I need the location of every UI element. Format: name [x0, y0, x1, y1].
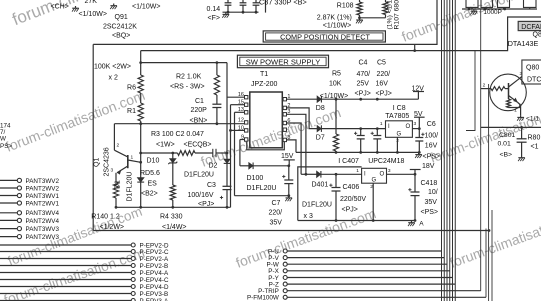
svg-text:D100: D100 — [247, 175, 264, 182]
svg-text:25V: 25V — [357, 81, 370, 88]
svg-text:PANT2WV4: PANT2WV4 — [26, 218, 60, 225]
wire vertical — [485, 229, 487, 298]
wire main box top — [93, 0, 437, 44]
svg-text:P-EPV4-A: P-EPV4-A — [140, 270, 169, 277]
svg-text:PANT3WV1: PANT3WV1 — [26, 193, 60, 200]
wire 18V input rail — [301, 173, 316, 175]
wire — [265, 0, 267, 13]
wire vertical — [466, 51, 475, 131]
T1 pin 10 — [245, 129, 248, 132]
svg-text:15V: 15V — [281, 153, 294, 160]
svg-text:C6: C6 — [427, 121, 436, 128]
connector P-EPV3-A — [0, 300, 131, 301]
svg-text:C406: C406 — [343, 184, 360, 191]
svg-text:<1/1: <1/1 — [526, 116, 539, 123]
svg-text:PANT2WV1: PANT2WV1 — [26, 200, 60, 207]
svg-text:R80: R80 — [528, 135, 541, 142]
svg-text:1: 1 — [131, 155, 134, 161]
svg-text:C801: C801 — [499, 132, 515, 139]
capacitor C1 220P — [216, 95, 218, 104]
svg-text:R108: R108 — [337, 2, 354, 9]
connector P-EPV4-C — [0, 279, 131, 281]
COMP POSITION DETECT block — [263, 31, 385, 42]
connector P-EPV2-C — [0, 251, 131, 253]
svg-text:Q80: Q80 — [526, 65, 539, 72]
svg-text:D7: D7 — [316, 135, 325, 142]
wire pin15 — [231, 104, 245, 106]
svg-text:(1%) <1/10W: (1%) <1/10W — [387, 0, 394, 30]
svg-text:R107 680: R107 680 — [394, 0, 401, 30]
ground — [359, 18, 361, 20]
svg-text:<F>: <F> — [208, 15, 220, 22]
wire pin2 to D7 — [287, 108, 318, 129]
svg-text:P-EPV3-B: P-EPV3-B — [140, 291, 169, 298]
connector PANT3WV1 — [0, 195, 17, 197]
svg-text:P-EPV2-C: P-EPV2-C — [140, 249, 169, 256]
resistor R6 — [140, 51, 142, 75]
svg-text:JPZ-200: JPZ-200 — [251, 81, 278, 88]
resistor R1 — [140, 93, 142, 103]
svg-text:<PS>: <PS> — [421, 209, 439, 216]
ground A — [411, 221, 413, 223]
svg-text:27K: 27K — [85, 0, 98, 5]
svg-text:G: G — [372, 178, 377, 184]
svg-text:3: 3 — [111, 168, 114, 174]
DCFAN label box — [518, 21, 541, 30]
wire pin6 jog — [287, 123, 302, 174]
wire bottom common W1 — [116, 206, 231, 208]
regulator IC407 UPC24M18 — [362, 168, 387, 183]
svg-text:2SC4236: 2SC4236 — [104, 147, 111, 176]
resistor R5 10K — [335, 99, 337, 134]
node 100K wire — [141, 62, 227, 64]
svg-text:3: 3 — [414, 121, 417, 127]
wire box left border — [92, 44, 94, 230]
zener D10 RD5.6ES — [171, 152, 174, 155]
svg-text:C1: C1 — [195, 98, 204, 105]
wire right lower — [481, 126, 541, 128]
connector PANT3WV3 — [0, 228, 17, 230]
bus wires — [441, 0, 443, 301]
connector PANT3WV4 — [0, 212, 17, 214]
svg-text:2SC2412K: 2SC2412K — [103, 23, 137, 30]
svg-text:<B>: <B> — [500, 152, 513, 159]
wire 12V rail — [287, 98, 318, 100]
svg-text:R1: R1 — [127, 108, 136, 115]
svg-text:TA7805: TA7805 — [385, 113, 409, 120]
connector P-EPV4-D — [0, 286, 131, 288]
svg-text:O: O — [380, 172, 385, 178]
capacitor C4 470/25V — [360, 129, 362, 136]
resistor R107 — [385, 0, 387, 2]
ground — [113, 4, 115, 6]
diode D100 D1FL20U — [240, 165, 249, 167]
svg-text:D1: D1 — [114, 180, 121, 189]
connector PANT3WV2 — [0, 179, 17, 181]
capacitor C801 0.01 — [521, 127, 523, 138]
svg-text:100K <2W>: 100K <2W> — [94, 64, 131, 71]
svg-text:35V: 35V — [270, 220, 283, 227]
svg-text:PANT3WV4: PANT3WV4 — [26, 210, 60, 217]
svg-text:D1FL20U: D1FL20U — [302, 202, 332, 209]
wire output — [387, 173, 416, 175]
svg-text:7: 7 — [287, 125, 290, 131]
wire bottom rail — [298, 220, 415, 222]
svg-text:220/50V: 220/50V — [340, 196, 366, 203]
svg-text:x 3: x 3 — [304, 213, 313, 220]
svg-text:O: O — [406, 124, 411, 130]
capacitor C5 220/16V — [376, 129, 378, 136]
wire — [360, 17, 386, 19]
svg-text:0.14: 0.14 — [207, 6, 221, 13]
svg-text:RD5.6: RD5.6 — [140, 170, 160, 177]
svg-text:C3: C3 — [207, 182, 216, 189]
T1 pin 13 — [245, 111, 248, 114]
svg-text:x 2: x 2 — [109, 75, 118, 82]
svg-text:I C407: I C407 — [338, 158, 359, 165]
capacitor — [227, 0, 229, 3]
wire vertical — [491, 210, 493, 301]
svg-text:100/: 100/ — [425, 132, 439, 139]
svg-text:<PJ>: <PJ> — [198, 201, 214, 208]
svg-text:DTC143: DTC143 — [527, 76, 541, 83]
svg-text:0.01: 0.01 — [498, 140, 511, 147]
svg-text:W: W — [0, 136, 6, 143]
svg-text:D10: D10 — [147, 158, 160, 165]
svg-text:<1W>: <1W> — [156, 141, 175, 148]
svg-text:2: 2 — [483, 83, 486, 89]
T1 pin 1 — [283, 98, 286, 101]
T1 pin 8 — [283, 138, 286, 141]
wire pin16 — [227, 96, 245, 98]
svg-text:<1/2W>: <1/2W> — [100, 224, 125, 231]
transistor Q1 2SC4236 — [114, 150, 127, 157]
wire pin8 to rail — [287, 140, 297, 153]
SW POWER SUPPLY label box — [237, 55, 328, 67]
svg-text:2: 2 — [117, 143, 120, 149]
ground — [288, 196, 290, 198]
svg-text:ES: ES — [148, 181, 158, 188]
wire — [412, 128, 419, 130]
svg-text:220P: 220P — [191, 107, 208, 114]
svg-text:COMP POSITION DETECT: COMP POSITION DETECT — [280, 32, 370, 41]
wire pin9 — [240, 139, 245, 141]
svg-text:16V: 16V — [376, 81, 389, 88]
diode D2 D1FL20U — [226, 63, 228, 159]
wire pins 9-8 loop — [247, 142, 284, 150]
svg-text:D1FL20U: D1FL20U — [184, 172, 214, 179]
svg-text:UPC24M18: UPC24M18 — [368, 158, 404, 165]
capacitor C7 220/35V — [288, 166, 290, 180]
svg-text:<PJ>: <PJ> — [342, 207, 358, 214]
transistor Q801 DTC digital — [490, 74, 527, 111]
diode D401 D1FL20U — [317, 171, 321, 178]
wire vertical — [480, 9, 482, 291]
svg-text:PANT2WV2: PANT2WV2 — [26, 185, 60, 192]
svg-text:<BQ>: <BQ> — [112, 32, 130, 39]
svg-text:18V: 18V — [422, 163, 435, 170]
svg-text:<RS - 3W>: <RS - 3W> — [170, 84, 205, 91]
svg-text:470/: 470/ — [357, 71, 371, 78]
connector P-EPV4-A — [0, 272, 131, 274]
wire pin13 — [235, 111, 245, 113]
connector P-EPV2-A — [0, 258, 131, 260]
capacitor C3 100/16V — [223, 185, 232, 187]
capacitor row top right — [462, 8, 537, 10]
wire — [223, 11, 259, 13]
svg-text:R6: R6 — [127, 85, 136, 92]
svg-text:10/: 10/ — [428, 189, 438, 196]
svg-text:P-EPV4-D: P-EPV4-D — [140, 284, 169, 291]
svg-text:35V: 35V — [425, 199, 438, 206]
svg-text:<CH>: <CH> — [51, 4, 69, 11]
connector PANT2WV1 — [0, 202, 17, 204]
wire mid rail — [296, 151, 419, 153]
T1 pin 6 — [283, 121, 286, 124]
svg-text:<PJ>: <PJ> — [376, 90, 392, 97]
diode D1 D1FL20U — [140, 124, 142, 178]
svg-text:<1/4W>: <1/4W> — [162, 224, 187, 231]
ground — [75, 6, 77, 8]
resistor R2 — [216, 63, 218, 75]
svg-text:P-EPV2-A: P-EPV2-A — [140, 256, 169, 263]
connector P-EPV2-B — [0, 265, 131, 267]
wire pin3 jog — [287, 114, 306, 174]
svg-text:DCFAN: DCFAN — [521, 24, 541, 31]
svg-text:220/: 220/ — [377, 71, 391, 78]
wire pin10 — [231, 129, 245, 131]
T1 pin 12 — [245, 121, 248, 124]
svg-text:T1: T1 — [260, 71, 268, 78]
svg-text:P-EPV4-C: P-EPV4-C — [140, 277, 169, 284]
svg-text:D2: D2 — [209, 163, 218, 170]
svg-text:12: 12 — [238, 117, 244, 123]
svg-text:100/16V: 100/16V — [188, 192, 214, 199]
resistor R108 — [359, 0, 361, 2]
svg-text:<PJ>: <PJ> — [355, 90, 371, 97]
wire base node to pin12 — [114, 123, 247, 125]
svg-text:<ECQB>: <ECQB> — [184, 141, 212, 148]
svg-text:<1/10W>: <1/10W> — [323, 23, 351, 30]
diode D7 — [317, 125, 321, 132]
svg-text:P-FM100W: P-FM100W — [247, 295, 279, 301]
svg-text:220/: 220/ — [269, 210, 283, 217]
T1 pin 16 — [245, 96, 248, 99]
T1 pin 15 — [245, 103, 248, 106]
label Q801 box — [522, 60, 541, 84]
svg-text:PS>: PS> — [0, 143, 12, 150]
svg-text:<PS>: <PS> — [423, 153, 441, 160]
connector P-EPV3-B — [0, 293, 131, 295]
svg-text:<1/10W>: <1/10W> — [320, 93, 348, 100]
capacitor — [255, 0, 257, 3]
wire vertical — [488, 84, 490, 301]
connector PANT2WV2 — [0, 187, 17, 189]
group border — [298, 167, 362, 221]
svg-text:Q91: Q91 — [115, 14, 128, 21]
capacitor C406 220/50V — [335, 174, 337, 187]
resistor R4 330 — [170, 185, 175, 200]
connector PANT2WV4 — [0, 219, 17, 221]
svg-text:PANT2WV3: PANT2WV3 — [26, 234, 60, 241]
svg-text:1: 1 — [380, 121, 383, 127]
svg-text:C7: C7 — [272, 200, 281, 207]
svg-text:Q1: Q1 — [94, 158, 101, 167]
capacitor C6 100/16V — [415, 137, 423, 139]
svg-text:P-EPV2-B: P-EPV2-B — [140, 263, 169, 270]
capacitor C418 10/35V — [414, 174, 416, 192]
connector P-EPV2-D — [0, 244, 131, 246]
svg-text:R5: R5 — [332, 71, 341, 78]
svg-text:C87 330P <B>: C87 330P <B> — [259, 0, 307, 6]
wire — [235, 195, 289, 197]
svg-text:R3 100 C2 0.047: R3 100 C2 0.047 — [151, 131, 204, 138]
svg-text:1: 1 — [514, 108, 517, 114]
svg-text:SW POWER SUPPLY: SW POWER SUPPLY — [246, 58, 321, 67]
svg-text:A: A — [419, 221, 424, 228]
ground — [473, 9, 475, 11]
wire — [113, 124, 115, 151]
svg-text:1000P: 1000P — [483, 9, 501, 16]
svg-text:D401: D401 — [312, 181, 329, 188]
ground — [225, 12, 227, 14]
T1 pin 9 — [245, 138, 248, 141]
resistor R3 100 — [178, 151, 196, 156]
svg-text:D1FL20U: D1FL20U — [247, 185, 277, 192]
svg-text:16V: 16V — [425, 142, 438, 149]
svg-text:2.87K (1%): 2.87K (1%) — [317, 15, 352, 22]
capacitor — [242, 0, 244, 3]
svg-text:DTA143E: DTA143E — [508, 39, 539, 48]
svg-text:G: G — [397, 132, 402, 138]
wire stub — [414, 44, 416, 50]
connector PANT2WV3 — [0, 236, 17, 238]
svg-text:C418: C418 — [421, 180, 438, 187]
svg-text:3: 3 — [388, 168, 391, 174]
svg-text:R140 1.2: R140 1.2 — [91, 213, 120, 220]
ground — [520, 115, 522, 117]
wire inner top — [141, 17, 541, 51]
svg-text:C4: C4 — [359, 60, 368, 67]
svg-text:R4 330: R4 330 — [160, 213, 183, 220]
svg-text:Q8: Q8 — [533, 31, 541, 38]
svg-text:<1/10W>: <1/10W> — [79, 11, 107, 18]
wire box bottom border — [93, 230, 489, 232]
svg-text:1: 1 — [356, 168, 359, 174]
svg-text:PANT3WV2: PANT3WV2 — [26, 178, 60, 185]
ground — [521, 156, 523, 158]
svg-text:<1: <1 — [531, 143, 539, 150]
T1 pin 2 — [283, 106, 286, 109]
diode D8 — [317, 96, 321, 103]
ground — [418, 152, 420, 154]
capacitor C2 0.047 — [212, 149, 214, 157]
svg-text:<1/10W>: <1/10W> — [132, 4, 160, 11]
svg-text:I C8: I C8 — [393, 105, 406, 112]
resistor R140 — [115, 173, 117, 182]
svg-text:10K: 10K — [329, 81, 342, 88]
svg-text:R2 1.0K: R2 1.0K — [176, 73, 202, 80]
wire R3 node — [141, 152, 178, 154]
svg-text:C5: C5 — [377, 60, 386, 67]
T1 pin 3 — [283, 113, 286, 116]
svg-text:PANT3WV3: PANT3WV3 — [26, 226, 60, 233]
T1 pin 7 — [283, 128, 286, 131]
svg-text:D1FL20U: D1FL20U — [127, 172, 134, 202]
svg-text:D8: D8 — [316, 105, 325, 112]
svg-text:<B2>: <B2> — [141, 191, 158, 198]
